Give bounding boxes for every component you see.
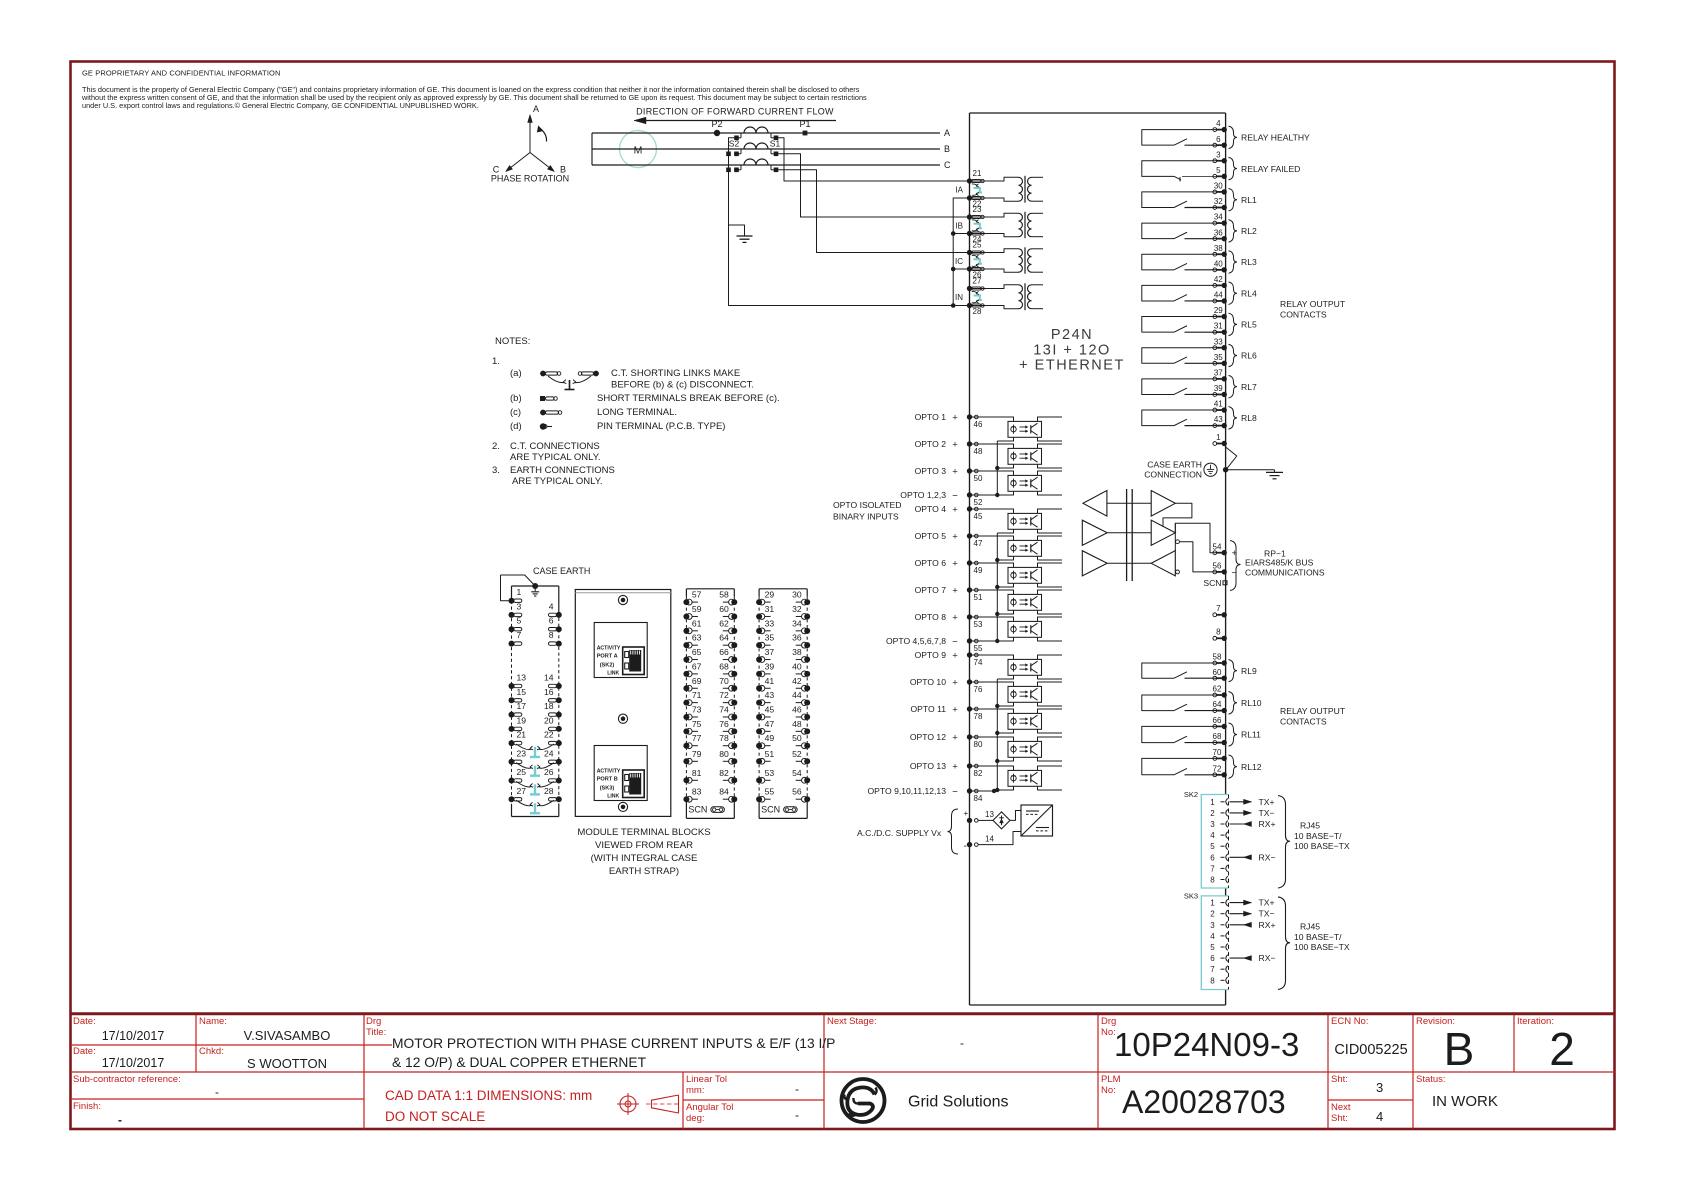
svg-text:27: 27 — [517, 786, 527, 796]
svg-text:ARE TYPICAL ONLY.: ARE TYPICAL ONLY. — [512, 476, 602, 487]
svg-text:74: 74 — [719, 704, 729, 714]
motor feeder bus — [591, 133, 593, 165]
svg-text:17/10/2017: 17/10/2017 — [102, 1056, 165, 1070]
wire T3 apex to terminal 54 — [1175, 523, 1224, 552]
svg-text:43: 43 — [765, 690, 775, 700]
svg-text:ARE TYPICAL ONLY.: ARE TYPICAL ONLY. — [510, 452, 600, 463]
terminal 7 — [1213, 604, 1227, 617]
relay output contact RELAY FAILED — [1142, 157, 1301, 181]
svg-text:RX−: RX− — [1259, 852, 1276, 862]
svg-text:Sht:: Sht: — [1331, 1074, 1348, 1085]
svg-text:A: A — [944, 128, 950, 138]
svg-text:80: 80 — [719, 749, 729, 759]
svg-text:100 BASE−TX: 100 BASE−TX — [1294, 841, 1350, 851]
relay output contact RL9 — [1142, 660, 1257, 682]
svg-text:OPTO ISOLATED: OPTO ISOLATED — [833, 500, 901, 510]
svg-text:35: 35 — [765, 633, 775, 643]
svg-text:68: 68 — [1213, 732, 1222, 741]
svg-text:10P24N09-3: 10P24N09-3 — [1114, 1026, 1299, 1063]
phase rotation symbol — [491, 104, 569, 184]
opto-coupler OPTO 4 — [970, 509, 1063, 533]
svg-text:P2: P2 — [711, 119, 722, 129]
svg-text:30: 30 — [792, 590, 802, 600]
svg-text:C.T. SHORTING LINKS MAKE: C.T. SHORTING LINKS MAKE — [611, 368, 740, 379]
phase C line — [592, 164, 940, 166]
svg-text:33: 33 — [1214, 337, 1223, 346]
svg-text:74: 74 — [974, 658, 983, 667]
svg-text:40: 40 — [792, 661, 802, 671]
svg-text:3: 3 — [1216, 150, 1221, 159]
opto input terminals and labels — [915, 412, 983, 429]
svg-text:-: - — [118, 1113, 122, 1127]
svg-text:+: + — [952, 650, 958, 661]
svg-text:6: 6 — [549, 616, 554, 626]
svg-text:52: 52 — [974, 498, 983, 507]
terminal block 29-56 — [756, 589, 810, 819]
svg-text:5: 5 — [1210, 842, 1215, 851]
svg-text:RL2: RL2 — [1241, 226, 1257, 236]
svg-text:Status:: Status: — [1416, 1074, 1446, 1085]
svg-text:CONTACTS: CONTACTS — [1280, 310, 1327, 320]
svg-text:77: 77 — [692, 733, 702, 743]
comms wire middle cross-barrier — [1107, 532, 1151, 534]
svg-text:+: + — [952, 612, 958, 623]
svg-text:Grid Solutions: Grid Solutions — [908, 1094, 1009, 1111]
ethernet connector SK2 — [1184, 790, 1276, 888]
buffer T3 driver (points right) — [1151, 520, 1175, 545]
svg-text:45: 45 — [974, 512, 983, 521]
T6 inverting input circle — [1176, 570, 1180, 574]
svg-text:+ ETHERNET: + ETHERNET — [1019, 358, 1125, 374]
svg-text:SCN: SCN — [761, 805, 780, 815]
ethernet comms module rear view — [575, 590, 671, 817]
svg-text:16: 16 — [544, 687, 554, 697]
svg-text:ACTIVITY: ACTIVITY — [597, 646, 621, 652]
svg-text:3: 3 — [1210, 921, 1215, 930]
svg-text:3: 3 — [517, 601, 522, 611]
svg-text:ECN No:: ECN No: — [1331, 1016, 1368, 1027]
svg-text:7: 7 — [1210, 965, 1215, 974]
svg-text:IN: IN — [955, 293, 963, 302]
relay output contact RL1 — [1142, 188, 1257, 211]
opto-coupler OPTO 11 — [970, 709, 1063, 733]
svg-text:2.: 2. — [492, 441, 500, 452]
svg-text:8: 8 — [1210, 876, 1215, 885]
svg-text:8: 8 — [1216, 628, 1221, 637]
title block — [70, 1014, 1615, 1129]
svg-text:39: 39 — [765, 661, 775, 671]
svg-text:V.SIVASAMBO: V.SIVASAMBO — [244, 1028, 331, 1043]
opto-coupler OPTO 9 — [970, 655, 1063, 679]
terminal 54 — [1213, 542, 1238, 559]
proprietary text block — [81, 69, 867, 111]
svg-text:OPTO 6: OPTO 6 — [915, 558, 947, 568]
svg-text:50: 50 — [974, 474, 983, 483]
svg-text:CAD DATA 1:1 DIMENSIONS: mm: CAD DATA 1:1 DIMENSIONS: mm — [385, 1088, 592, 1103]
ethernet connector SK3 — [1184, 891, 1276, 989]
buffer T5 (points right) — [1082, 551, 1107, 576]
svg-text:VIEWED FROM REAR: VIEWED FROM REAR — [595, 840, 693, 851]
svg-text:4: 4 — [549, 601, 554, 611]
svg-text:PHASE ROTATION: PHASE ROTATION — [491, 174, 569, 184]
opto-coupler OPTO 5 — [970, 536, 1063, 560]
svg-text:5: 5 — [1210, 943, 1215, 952]
wire CT-A S1 to terminal 21 — [778, 138, 970, 181]
svg-text:47: 47 — [765, 719, 775, 729]
svg-text:54: 54 — [792, 768, 802, 778]
svg-text:PLM: PLM — [1101, 1074, 1121, 1085]
svg-text:4: 4 — [1210, 831, 1215, 840]
svg-text:57: 57 — [692, 590, 702, 600]
wire bridge to dc/dc — [1010, 811, 1021, 821]
P2 marker — [711, 119, 722, 136]
P1 marker — [799, 119, 810, 135]
svg-text:21: 21 — [517, 730, 527, 740]
svg-text:42: 42 — [792, 676, 802, 686]
svg-text:OPTO 12: OPTO 12 — [910, 732, 946, 742]
svg-text:4: 4 — [1376, 1109, 1383, 1124]
svg-text:M: M — [634, 145, 643, 157]
opto return bus group 2 — [996, 533, 998, 641]
relay output contact RL6 — [1142, 344, 1257, 367]
svg-text:8: 8 — [1210, 976, 1215, 985]
svg-text:64: 64 — [719, 633, 729, 643]
module terminal blocks caption — [577, 827, 710, 877]
svg-text:13: 13 — [517, 673, 527, 683]
comms wire upper cross-barrier — [1107, 502, 1151, 504]
svg-text:TX−: TX− — [1259, 808, 1275, 818]
terminal block 57-84 — [683, 589, 737, 819]
svg-text:61: 61 — [692, 618, 702, 628]
svg-text:66: 66 — [1213, 716, 1222, 725]
svg-text:OPTO 5: OPTO 5 — [915, 531, 947, 541]
terminal block 1 outline — [512, 586, 559, 817]
terminal 56 — [1213, 562, 1238, 579]
svg-text:52: 52 — [792, 749, 802, 759]
svg-text:DO NOT SCALE: DO NOT SCALE — [385, 1109, 485, 1124]
comms isolation barrier — [1127, 489, 1133, 581]
svg-text:PIN TERMINAL (P.C.B. TYPE): PIN TERMINAL (P.C.B. TYPE) — [597, 421, 725, 432]
svg-text:+: + — [952, 504, 958, 515]
svg-text:30: 30 — [1214, 182, 1223, 191]
A.C./D.C. supply Vx section — [857, 809, 969, 854]
supply terminal 14 — [967, 835, 995, 848]
svg-text:Finish:: Finish: — [73, 1101, 101, 1112]
svg-text:TX−: TX− — [1259, 909, 1275, 919]
svg-text:Name:: Name: — [199, 1016, 227, 1027]
svg-text:49: 49 — [974, 566, 983, 575]
svg-text:15: 15 — [517, 687, 527, 697]
internal CT IC — [955, 241, 1043, 280]
svg-text:84: 84 — [974, 794, 983, 803]
relay output contact RL10 — [1142, 692, 1262, 715]
svg-text:3: 3 — [1210, 820, 1215, 829]
svg-text:OPTO 1: OPTO 1 — [915, 412, 947, 422]
svg-text:OPTO 3: OPTO 3 — [915, 466, 947, 476]
svg-text:SK2: SK2 — [1184, 790, 1198, 799]
svg-text:COMMUNICATIONS: COMMUNICATIONS — [1245, 567, 1325, 577]
direction of forward current flow arrow — [634, 107, 836, 124]
right edge terminal pins 4..43 — [1213, 119, 1227, 132]
case earth links on terminals 21-28 — [516, 744, 554, 757]
svg-text:OPTO 7: OPTO 7 — [915, 585, 947, 595]
svg-text:71: 71 — [692, 690, 702, 700]
svg-text:29: 29 — [765, 590, 775, 600]
note 2 — [492, 441, 600, 463]
svg-text:Chkd:: Chkd: — [199, 1046, 224, 1057]
svg-text:34: 34 — [792, 618, 802, 628]
svg-text:19: 19 — [517, 715, 527, 725]
svg-text:6: 6 — [1210, 853, 1215, 862]
relay output contact RELAY HEALTHY — [1142, 126, 1310, 149]
svg-text:OPTO 10: OPTO 10 — [910, 677, 946, 687]
svg-text:−: − — [952, 786, 958, 797]
svg-text:100 BASE−TX: 100 BASE−TX — [1294, 942, 1350, 952]
svg-text:4: 4 — [1210, 932, 1215, 941]
svg-text:RJ45: RJ45 — [1300, 820, 1320, 830]
svg-text:EARTH CONNECTIONS: EARTH CONNECTIONS — [510, 465, 615, 476]
svg-text:Linear Tol: Linear Tol — [686, 1074, 727, 1085]
wire terminal 14 to dc/dc — [978, 832, 1021, 845]
svg-text:43: 43 — [1214, 415, 1223, 424]
terminal 8 — [1213, 628, 1227, 641]
svg-text:58: 58 — [1213, 653, 1222, 662]
svg-text:+: + — [952, 677, 958, 688]
svg-text:72: 72 — [1213, 764, 1222, 773]
svg-text:CASE EARTH: CASE EARTH — [1147, 460, 1202, 470]
svg-text:RL7: RL7 — [1241, 382, 1257, 392]
svg-text:31: 31 — [765, 604, 775, 614]
svg-text:deg:: deg: — [686, 1113, 705, 1124]
svg-text:54: 54 — [1213, 542, 1222, 551]
svg-text:RL5: RL5 — [1241, 320, 1257, 330]
svg-text:48: 48 — [974, 447, 983, 456]
svg-text:58: 58 — [719, 590, 729, 600]
svg-text:-: - — [964, 841, 967, 852]
svg-text:IA: IA — [955, 186, 963, 195]
wire CT-B S1 to terminal 23 — [778, 154, 970, 217]
case earth connection — [1144, 447, 1237, 480]
svg-text:46: 46 — [974, 420, 983, 429]
svg-text:63: 63 — [692, 633, 702, 643]
svg-text:RL6: RL6 — [1241, 351, 1257, 361]
opto-coupler OPTO 10 — [970, 682, 1063, 706]
svg-text:+: + — [952, 531, 958, 542]
svg-text:84: 84 — [719, 787, 729, 797]
svg-text:-: - — [960, 1036, 964, 1050]
svg-text:40: 40 — [1214, 259, 1223, 268]
svg-text:& 12 O/P) & DUAL COPPER ETHERN: & 12 O/P) & DUAL COPPER ETHERNET — [392, 1055, 647, 1070]
svg-text:(a): (a) — [510, 368, 522, 379]
svg-text:IB: IB — [955, 221, 963, 230]
buffer T2 (points right) — [1151, 491, 1175, 517]
svg-text:14: 14 — [985, 835, 994, 844]
SCN terminal — [1203, 578, 1227, 588]
svg-text:35: 35 — [1214, 353, 1223, 362]
buffer T1 (receive, points left) — [1083, 491, 1107, 517]
svg-text:LINK: LINK — [607, 794, 619, 800]
opto-coupler OPTO 6 — [970, 563, 1063, 587]
svg-text:64: 64 — [1213, 700, 1222, 709]
svg-text:23: 23 — [517, 748, 527, 758]
svg-text:7: 7 — [517, 630, 522, 640]
svg-text:RELAY FAILED: RELAY FAILED — [1241, 164, 1300, 174]
RJ45 label SK2 — [1278, 796, 1350, 889]
svg-text:13: 13 — [985, 810, 994, 819]
svg-text:RX−: RX− — [1259, 953, 1276, 963]
internal CT IB — [955, 205, 1043, 244]
svg-text:23: 23 — [973, 205, 982, 214]
svg-text:53: 53 — [765, 768, 775, 778]
svg-text:1.: 1. — [492, 356, 500, 367]
relay output contact RL2 — [1142, 220, 1257, 243]
RJ45 label SK3 — [1278, 897, 1350, 990]
svg-text:OPTO 11: OPTO 11 — [910, 704, 946, 714]
svg-text:MODULE TERMINAL BLOCKS: MODULE TERMINAL BLOCKS — [577, 827, 710, 838]
svg-text:13I + 12O: 13I + 12O — [1033, 343, 1111, 359]
svg-text:72: 72 — [719, 690, 729, 700]
relay output contact RL3 — [1142, 251, 1257, 274]
svg-text:CID005225: CID005225 — [1334, 1042, 1407, 1058]
earth on CT secondary common — [729, 225, 753, 242]
OPTO ISOLATED BINARY INPUTS label — [833, 500, 901, 522]
svg-text:75: 75 — [692, 719, 702, 729]
svg-text:26: 26 — [544, 767, 554, 777]
svg-text:17: 17 — [517, 701, 527, 711]
svg-text:+: + — [952, 761, 958, 772]
svg-text:69: 69 — [692, 676, 702, 686]
current transformer CT phase C — [734, 159, 778, 172]
current transformer CT phase B — [734, 143, 778, 156]
svg-text:1: 1 — [1216, 433, 1221, 442]
svg-text:70: 70 — [1213, 748, 1222, 757]
comms wire lower cross-barrier — [1107, 562, 1151, 564]
svg-text:25: 25 — [973, 241, 982, 250]
svg-text:MOTOR PROTECTION WITH PHASE CU: MOTOR PROTECTION WITH PHASE CURRENT INPU… — [392, 1036, 835, 1051]
svg-text:18: 18 — [544, 701, 554, 711]
svg-text:IN WORK: IN WORK — [1432, 1093, 1498, 1110]
svg-text:79: 79 — [692, 749, 702, 759]
svg-text:31: 31 — [1214, 322, 1223, 331]
note (d) pin terminal symbol — [510, 421, 725, 432]
svg-text:2: 2 — [1210, 809, 1215, 818]
svg-text:RX+: RX+ — [1259, 819, 1276, 829]
svg-text:−: − — [1232, 567, 1238, 578]
svg-text:+: + — [952, 704, 958, 715]
opto-coupler OPTO 13 — [970, 766, 1063, 790]
svg-text:S2: S2 — [729, 139, 740, 149]
svg-text:21: 21 — [973, 169, 982, 178]
svg-text:PORT A: PORT A — [597, 654, 618, 660]
svg-text:66: 66 — [719, 647, 729, 657]
current transformer CT phase A — [734, 127, 778, 140]
wire T6 input from 54 net — [1174, 523, 1176, 550]
svg-text:OPTO 9,10,11,12,13: OPTO 9,10,11,12,13 — [867, 786, 946, 796]
svg-text:34: 34 — [1214, 213, 1223, 222]
svg-text:RL12: RL12 — [1241, 762, 1262, 772]
RP-1 brace and label — [1230, 541, 1325, 591]
svg-text:2: 2 — [1210, 910, 1215, 919]
svg-text:OPTO 4,5,6,7,8: OPTO 4,5,6,7,8 — [886, 636, 946, 646]
svg-text:28: 28 — [544, 786, 554, 796]
internal CT IA — [955, 169, 1043, 209]
svg-text:TX+: TX+ — [1259, 797, 1275, 807]
svg-text:76: 76 — [974, 685, 983, 694]
opto-coupler OPTO 3 — [970, 471, 1063, 495]
relay output contact RL8 — [1142, 407, 1257, 430]
svg-text:(c): (c) — [510, 407, 521, 418]
svg-text:PORT B: PORT B — [597, 777, 618, 783]
title block labels and values — [73, 1016, 1575, 1127]
svg-text:36: 36 — [1214, 228, 1223, 237]
relay output contact RL7 — [1142, 375, 1257, 398]
CASE EARTH label and strap — [501, 566, 591, 601]
svg-text:Title:: Title: — [366, 1027, 386, 1038]
svg-text:C.T. CONNECTIONS: C.T. CONNECTIONS — [510, 441, 600, 452]
svg-text:70: 70 — [719, 676, 729, 686]
svg-text:5: 5 — [517, 616, 522, 626]
svg-text:NOTES:: NOTES: — [495, 336, 530, 347]
svg-text:Sub-contractor reference:: Sub-contractor reference: — [73, 1074, 181, 1085]
svg-text:62: 62 — [1213, 685, 1222, 694]
svg-text:53: 53 — [974, 620, 983, 629]
svg-text:A20028703: A20028703 — [1122, 1084, 1286, 1120]
svg-text:55: 55 — [974, 644, 983, 653]
wire S2 common bus to terminal 28 — [729, 138, 970, 306]
T3 inverted output to terminal 56 — [1176, 540, 1180, 544]
note (a) CT shorting link symbol — [510, 368, 754, 391]
svg-text:TX+: TX+ — [1259, 898, 1275, 908]
relay output contact RL12 — [1142, 755, 1262, 778]
svg-text:36: 36 — [792, 633, 802, 643]
opto-coupler OPTO 1 — [970, 417, 1063, 441]
svg-text:S WOOTTON: S WOOTTON — [247, 1056, 327, 1071]
svg-text:5: 5 — [1216, 166, 1221, 175]
terminal block 1 pins — [509, 587, 522, 604]
svg-text:A: A — [533, 104, 539, 114]
wire T2 output loop — [1163, 503, 1192, 526]
svg-text:28: 28 — [973, 307, 982, 316]
svg-text:Date:: Date: — [73, 1016, 96, 1027]
GE monogram logo — [842, 1079, 885, 1122]
svg-text:(SK2): (SK2) — [600, 663, 615, 669]
P24N model label — [1019, 327, 1125, 374]
svg-text:10 BASE−T/: 10 BASE−T/ — [1294, 932, 1342, 942]
phase A line — [592, 132, 940, 134]
svg-text:RX+: RX+ — [1259, 920, 1276, 930]
wire CT-C S1 to terminal 25 — [778, 170, 970, 253]
svg-text:+: + — [952, 585, 958, 596]
note 3 — [492, 465, 615, 487]
relay output contact RL5 — [1142, 313, 1257, 336]
svg-text:78: 78 — [719, 733, 729, 743]
svg-text:CASE EARTH: CASE EARTH — [533, 566, 590, 576]
svg-text:OPTO 1,2,3: OPTO 1,2,3 — [900, 490, 946, 500]
supply terminal 13 — [967, 810, 995, 823]
projection symbols in CAD cell — [617, 1093, 681, 1115]
svg-text:−: − — [952, 490, 958, 501]
relay output contact RL4 — [1142, 282, 1257, 305]
svg-text:41: 41 — [765, 676, 775, 686]
svg-text:1: 1 — [517, 587, 522, 597]
svg-text:24: 24 — [544, 748, 554, 758]
svg-text:22: 22 — [544, 730, 554, 740]
svg-text:SCN: SCN — [1203, 578, 1221, 588]
svg-text:DIRECTION OF FORWARD CURREN: DIRECTION OF FORWARD CURRENT FLOW — [636, 107, 834, 117]
RJ45 jack SK2 — [594, 623, 647, 678]
svg-text:60: 60 — [719, 604, 729, 614]
svg-text:2: 2 — [1549, 1023, 1575, 1075]
